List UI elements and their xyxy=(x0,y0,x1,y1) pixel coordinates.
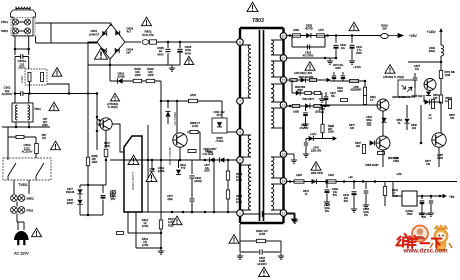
wire xyxy=(167,42,169,48)
warning triangle xyxy=(51,141,61,151)
filter contact S802b xyxy=(25,28,31,34)
capacitor C847 xyxy=(429,201,433,203)
junction xyxy=(420,142,423,145)
junction xyxy=(96,92,99,95)
warning triangle xyxy=(305,62,315,72)
wire xyxy=(382,111,384,136)
warning triangle xyxy=(49,102,59,112)
wire xyxy=(271,54,284,56)
ground xyxy=(291,216,297,222)
svg-text:!: ! xyxy=(188,57,190,66)
diode D815 xyxy=(77,189,82,194)
svg-text:IC801 S6707: IC801 S6707 xyxy=(131,172,135,190)
wire xyxy=(240,44,251,46)
junction xyxy=(160,159,163,162)
arrow +26V xyxy=(388,34,403,38)
svg-text:F802: F802 xyxy=(27,209,34,213)
svg-text:R835 1M2: R835 1M2 xyxy=(411,95,423,98)
T803 sec winding 6 xyxy=(271,184,274,210)
resistor R801 xyxy=(16,135,24,138)
junction xyxy=(96,116,99,119)
wire xyxy=(382,150,384,167)
bridge rectifier D801 outline xyxy=(97,24,125,59)
wire B+ bus xyxy=(125,41,141,43)
wire xyxy=(414,73,416,77)
svg-text:Q803 2C3B3-Tk: Q803 2C3B3-Tk xyxy=(392,96,411,99)
resistor R812 xyxy=(117,232,124,235)
wire xyxy=(364,96,366,105)
wire xyxy=(7,137,9,160)
ground xyxy=(303,151,309,157)
wire +26V rail xyxy=(287,35,381,37)
wire xyxy=(79,185,81,188)
wire xyxy=(179,147,181,160)
wire xyxy=(187,131,200,133)
svg-text:!: ! xyxy=(56,69,59,78)
wire xyxy=(364,81,366,87)
junction xyxy=(87,92,90,95)
wire xyxy=(176,101,178,133)
wire xyxy=(16,214,18,223)
transistor Q802 xyxy=(424,79,436,91)
wire xyxy=(102,200,104,216)
svg-text:L83B: L83B xyxy=(293,111,299,114)
resistor R811 xyxy=(188,149,196,152)
svg-text:!: ! xyxy=(114,95,116,102)
capacitor C8B xyxy=(101,195,106,197)
wire xyxy=(221,101,223,118)
junction xyxy=(160,247,163,250)
wire xyxy=(414,81,416,88)
wire xyxy=(14,57,16,94)
wire primary drive xyxy=(161,100,222,102)
diode D834 xyxy=(426,92,431,96)
wire standby loop bottom xyxy=(80,214,103,216)
svg-text:+25v: +25v xyxy=(396,172,402,176)
svg-text:!: ! xyxy=(99,50,102,61)
wire xyxy=(420,105,422,143)
wire xyxy=(8,136,36,138)
wire xyxy=(13,180,15,194)
wire xyxy=(271,83,284,85)
wire xyxy=(271,101,284,103)
ground xyxy=(169,65,175,71)
resistor R833 xyxy=(321,124,324,133)
capacitor C809 xyxy=(334,45,339,47)
resistor R819 xyxy=(363,87,366,96)
inductor L8B xyxy=(350,79,359,82)
capacitor C826 xyxy=(341,76,345,78)
svg-text:M802: M802 xyxy=(27,197,35,201)
junction xyxy=(439,195,442,198)
wire rail 2 xyxy=(147,125,149,212)
connector F802 a xyxy=(11,207,18,214)
wire xyxy=(335,49,337,58)
svg-text:!: ! xyxy=(176,217,179,226)
svg-text:L80B: L80B xyxy=(293,29,299,32)
wire AC line to bridge left xyxy=(36,42,97,44)
svg-text:!: ! xyxy=(315,163,318,172)
junction xyxy=(151,159,154,162)
T803 sec winding 3 xyxy=(271,84,274,102)
junction xyxy=(14,48,17,51)
T803 pin 16 xyxy=(280,151,287,158)
filter contact S802a xyxy=(13,28,19,34)
junction xyxy=(289,105,292,108)
ground xyxy=(237,253,243,259)
inductor L833 xyxy=(310,78,317,81)
wire xyxy=(271,209,284,211)
warning triangle xyxy=(95,48,108,61)
warning triangle xyxy=(184,56,194,66)
wire xyxy=(239,224,241,241)
connector M802 b xyxy=(18,195,25,202)
svg-text:!: ! xyxy=(389,66,392,75)
junction xyxy=(147,159,150,162)
warning triangle xyxy=(247,2,258,13)
wire xyxy=(335,36,337,44)
wire xyxy=(213,160,215,212)
diode D808 xyxy=(165,111,170,116)
filter FL802 box xyxy=(25,69,47,85)
junction xyxy=(171,211,174,214)
wire xyxy=(326,182,328,189)
wire 140V rail xyxy=(440,56,442,131)
arrow +8v xyxy=(443,194,446,197)
wire xyxy=(19,21,25,23)
T803 pin 13 xyxy=(280,102,287,109)
svg-text:C8??220p: C8??220p xyxy=(167,195,173,201)
resistor R815 xyxy=(226,190,229,199)
svg-text:+26V: +26V xyxy=(409,34,418,38)
warning triangle xyxy=(311,162,321,172)
bridge diode b xyxy=(102,48,106,53)
watermark stamp xyxy=(412,226,428,242)
wire xyxy=(28,36,30,55)
svg-text:!: ! xyxy=(251,4,254,13)
wire xyxy=(271,76,284,78)
wire xyxy=(438,147,440,167)
capacitor C81B xyxy=(307,45,309,50)
T803 pin 12 xyxy=(280,210,287,217)
diode D828 xyxy=(381,118,386,122)
inductor L802 xyxy=(189,99,198,102)
wire xyxy=(240,134,251,136)
arrow +24V xyxy=(322,78,330,81)
junction xyxy=(15,126,18,129)
T801 winding left xyxy=(16,105,18,120)
wire xyxy=(109,65,111,81)
svg-text:1: 1 xyxy=(239,211,241,215)
diode D802 xyxy=(117,78,122,83)
junction xyxy=(87,184,90,187)
wire source bus xyxy=(110,159,238,161)
wire xyxy=(325,92,327,96)
wire xyxy=(28,180,30,194)
wire xyxy=(326,194,328,200)
wire snubber row xyxy=(292,92,322,94)
wire standby loop top xyxy=(80,184,103,186)
resistor R808 xyxy=(190,130,198,133)
svg-text:!: ! xyxy=(54,142,57,151)
svg-text:6: 6 xyxy=(239,40,241,44)
wire xyxy=(239,241,241,252)
arrow +12V xyxy=(333,137,336,140)
resistor R823 xyxy=(439,95,442,103)
junction xyxy=(28,126,31,129)
svg-text:!: ! xyxy=(53,103,56,112)
wire xyxy=(19,30,25,32)
capacitor C817 xyxy=(324,97,329,99)
wire xyxy=(393,195,402,197)
svg-text:!: ! xyxy=(309,63,312,72)
diode D805 xyxy=(217,122,222,127)
T803 pin 17 xyxy=(280,55,287,62)
svg-text:3: 3 xyxy=(239,130,241,134)
wire xyxy=(440,102,442,133)
junction xyxy=(364,80,367,83)
junction xyxy=(421,195,424,198)
junction xyxy=(227,211,230,214)
junction xyxy=(362,180,365,183)
filter contact F801b xyxy=(25,19,31,25)
resistor R805 xyxy=(133,79,142,82)
svg-text:13: 13 xyxy=(282,103,286,107)
wire xyxy=(333,72,335,75)
diode D825 xyxy=(425,99,430,104)
wire AC branch xyxy=(50,23,52,43)
ground xyxy=(419,210,425,216)
junction xyxy=(353,180,356,183)
diode D822 xyxy=(296,90,300,95)
wire xyxy=(305,146,307,151)
svg-text:10: 10 xyxy=(282,34,286,38)
opto arrows xyxy=(97,119,101,126)
wire AC line to bridge top xyxy=(36,22,112,24)
svg-text:18: 18 xyxy=(282,179,286,183)
wire xyxy=(35,137,37,158)
resistor R838 xyxy=(378,152,385,155)
connector F802 b xyxy=(18,207,25,214)
watermark mascot xyxy=(430,225,452,251)
wire xyxy=(28,57,30,70)
IC IC803 KA8301 box xyxy=(402,191,417,206)
capacitor C821 xyxy=(190,199,195,201)
line filter L801 outline xyxy=(11,10,36,36)
transistor Q805 xyxy=(432,133,446,147)
svg-text:T801: T801 xyxy=(34,107,41,111)
wire xyxy=(79,205,81,215)
ground xyxy=(291,157,297,163)
wire xyxy=(408,61,441,63)
svg-text:+140v: +140v xyxy=(353,65,362,69)
wire xyxy=(305,117,307,122)
wire xyxy=(293,214,295,216)
svg-text:!: ! xyxy=(145,18,148,27)
wire xyxy=(240,251,259,253)
switch TV801 lever a xyxy=(8,163,16,180)
wire xyxy=(406,124,408,130)
fusible resistor R816 xyxy=(381,34,389,39)
warning triangle xyxy=(32,228,42,238)
svg-text:Q801 2SD188: Q801 2SD188 xyxy=(168,147,172,165)
capacitor C805 xyxy=(165,49,170,51)
wire xyxy=(167,53,169,65)
transistor Q801 xyxy=(173,133,187,147)
inductor L808b xyxy=(293,34,301,37)
T803 pin 6 xyxy=(237,39,244,46)
switch TV801 box xyxy=(3,158,51,180)
T803 pin 1 xyxy=(237,210,244,217)
wire bypass left xyxy=(291,36,293,48)
wire xyxy=(384,196,386,207)
wire xyxy=(14,94,16,104)
wire xyxy=(179,42,181,48)
svg-text:2: 2 xyxy=(239,158,241,162)
transistor Q803 xyxy=(377,99,389,111)
resistor in FL802 b xyxy=(41,73,44,82)
wire xyxy=(240,209,251,211)
diode D80B xyxy=(306,33,311,38)
svg-text:D805/7.5SA: D805/7.5SA xyxy=(216,136,224,143)
wire xyxy=(320,104,377,106)
wire xyxy=(271,156,284,158)
svg-text:L830 D821 L833: L830 D821 L833 xyxy=(294,72,312,75)
wire xyxy=(240,240,256,242)
resistor R822 xyxy=(363,96,366,105)
wire +16V bus xyxy=(287,181,457,183)
resistor R841 xyxy=(383,187,386,196)
svg-text:T803: T803 xyxy=(252,18,264,24)
wire xyxy=(160,212,162,220)
wire standby rail xyxy=(87,65,89,215)
svg-text:+9v: +9v xyxy=(348,175,353,179)
svg-text:D808 FY04: D808 FY04 xyxy=(173,112,177,126)
capacitor C802 plates xyxy=(21,91,23,96)
svg-text:D856 244B?: D856 244B? xyxy=(365,164,379,167)
wire xyxy=(15,56,21,58)
svg-text:L832: L832 xyxy=(328,174,334,177)
wire xyxy=(271,177,284,179)
diode D807 xyxy=(220,157,225,162)
T801 winding right xyxy=(28,105,30,120)
junction xyxy=(109,64,112,67)
wire +8V out xyxy=(417,195,446,197)
capacitor C843 xyxy=(364,191,369,193)
junction xyxy=(351,34,354,37)
warning triangle xyxy=(128,155,139,166)
svg-text:R80?(680): R80?(680) xyxy=(104,142,111,148)
wire xyxy=(240,156,251,158)
svg-text:L/T5C802TL PA(R): L/T5C802TL PA(R) xyxy=(107,103,119,109)
snubber box D805 xyxy=(212,118,227,133)
svg-text:D80B4D?TB: D80B4D?TB xyxy=(305,25,313,31)
svg-text:!: ! xyxy=(132,157,135,166)
wire xyxy=(105,160,107,185)
junction xyxy=(27,48,30,51)
wire bypass bottom xyxy=(292,46,325,48)
wire xyxy=(79,195,81,200)
wire xyxy=(227,199,229,212)
T803 aux winding 2 xyxy=(248,165,251,210)
wire xyxy=(263,251,281,253)
svg-text:+12V: +12V xyxy=(309,132,316,136)
wire xyxy=(430,196,432,199)
wire xyxy=(109,59,111,65)
wire bus to T803 pin1 xyxy=(142,211,238,213)
wire xyxy=(287,213,294,215)
ground xyxy=(302,121,308,127)
capacitor C846 xyxy=(420,201,425,203)
wire xyxy=(406,105,408,118)
wire xyxy=(179,53,181,65)
wire link xyxy=(15,48,29,50)
svg-text:!: ! xyxy=(233,236,236,245)
wire xyxy=(35,36,37,43)
wire xyxy=(240,97,251,99)
junction xyxy=(204,159,207,162)
warning triangle xyxy=(142,17,152,27)
capacitor C816 xyxy=(260,211,263,217)
wire xyxy=(178,160,180,168)
wire +12V rail xyxy=(306,138,336,140)
wire xyxy=(102,185,104,193)
wire xyxy=(151,160,153,168)
wire xyxy=(28,94,30,104)
resistor R809 body xyxy=(104,149,108,157)
junction xyxy=(324,57,327,60)
resistor R80E xyxy=(86,157,89,166)
wire xyxy=(262,213,280,215)
inductor L838 xyxy=(292,104,300,107)
optocoupler IC802 phototransistor xyxy=(100,118,112,130)
wire xyxy=(392,182,394,197)
warning triangle xyxy=(259,267,270,278)
wire xyxy=(322,133,324,139)
wire xyxy=(29,7,31,10)
wire xyxy=(291,80,293,93)
T803 pin 3 xyxy=(237,129,244,136)
wire xyxy=(333,79,335,81)
T803 sec winding 1 xyxy=(271,40,274,55)
ground xyxy=(327,58,333,64)
svg-text:16: 16 xyxy=(282,152,286,156)
wire xyxy=(305,106,307,111)
wire xyxy=(167,101,169,108)
T803 aux winding xyxy=(248,135,251,157)
diode D826 xyxy=(309,136,314,141)
svg-text:+140v: +140v xyxy=(426,30,435,34)
svg-text:L/I5C802 TL PA(R): L/I5C802 TL PA(R) xyxy=(383,76,404,79)
wire xyxy=(23,222,25,230)
junction xyxy=(204,211,207,214)
wire xyxy=(191,202,193,212)
diode D812 xyxy=(176,170,181,175)
T803 pin 7 xyxy=(237,98,244,105)
line filter choke coil xyxy=(16,7,30,9)
capacitor C829 xyxy=(303,113,308,115)
wire primary return xyxy=(110,80,161,82)
resistor R813 xyxy=(226,171,229,180)
junction xyxy=(68,92,71,95)
svg-text:17: 17 xyxy=(282,56,286,60)
svg-text:D802(D5B): D802(D5B) xyxy=(117,72,124,79)
optocoupler IC802 internals xyxy=(402,85,413,92)
transistor Q804 xyxy=(376,136,390,150)
svg-text:S802: S802 xyxy=(1,29,8,33)
wire xyxy=(28,122,30,127)
wire xyxy=(271,127,284,129)
